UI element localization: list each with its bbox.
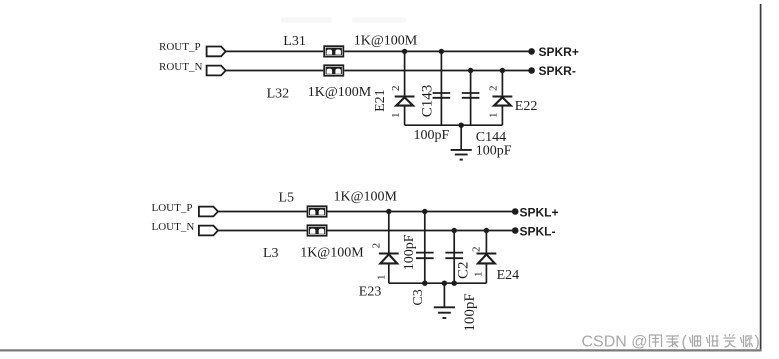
- svg-text:2: 2: [390, 86, 402, 92]
- ground top section: [451, 125, 472, 159]
- junction C3 top: [422, 209, 427, 214]
- node SPKL-: [512, 225, 556, 239]
- svg-text:1K@100M: 1K@100M: [300, 245, 364, 260]
- svg-text:C3: C3: [411, 289, 426, 305]
- svg-text:LOUT_N: LOUT_N: [152, 221, 195, 233]
- svg-text:L32: L32: [267, 86, 290, 101]
- svg-text:L3: L3: [263, 246, 279, 261]
- wire ROUT_P to L31: [226, 50, 323, 52]
- svg-text:SPKL+: SPKL+: [520, 205, 559, 219]
- capacitor C144: [462, 71, 480, 126]
- svg-text:1K@100M: 1K@100M: [354, 34, 418, 49]
- TVS diode E21: [395, 51, 415, 125]
- wire L3 to SPKL-: [328, 230, 516, 232]
- capacitor C3: [416, 212, 434, 284]
- svg-text:1: 1: [390, 113, 402, 119]
- node SPKL+: [512, 205, 559, 219]
- node SPKR-: [528, 64, 576, 78]
- wire LOUT_P to L5: [218, 211, 307, 213]
- capacitor C2: [445, 231, 463, 284]
- svg-text:SPKR+: SPKR+: [539, 45, 579, 59]
- junction ground rail bottom: [442, 281, 447, 286]
- port LOUT_P: [152, 202, 219, 217]
- svg-text:2: 2: [488, 86, 500, 92]
- junction ground rail top: [459, 123, 464, 128]
- svg-text:C2: C2: [455, 261, 471, 279]
- wire L32 to SPKR-: [344, 70, 531, 72]
- TVS diode E24: [477, 231, 497, 284]
- svg-text:100pF: 100pF: [402, 234, 417, 270]
- svg-text:2: 2: [371, 243, 383, 249]
- svg-text:CSDN @: CSDN @: [582, 333, 648, 350]
- svg-text:E22: E22: [515, 99, 538, 114]
- TVS diode E23: [379, 212, 399, 284]
- ferrite bead L3: [307, 225, 326, 236]
- junction E22 top: [500, 68, 505, 73]
- wire LOUT_N to L3: [218, 230, 307, 232]
- svg-text:E23: E23: [359, 284, 382, 299]
- junction E23 top: [386, 209, 391, 214]
- svg-text:ROUT_P: ROUT_P: [159, 41, 201, 53]
- svg-text:E21: E21: [373, 89, 388, 112]
- svg-text:1K@100M: 1K@100M: [308, 85, 372, 100]
- ferrite bead L5: [307, 206, 326, 217]
- svg-text:E24: E24: [497, 268, 520, 283]
- port ROUT_N: [159, 61, 226, 76]
- junction C3 bottom: [422, 281, 427, 286]
- junction C143 top: [439, 49, 444, 54]
- junction E21 top: [402, 49, 407, 54]
- junction C2 bottom: [452, 281, 457, 286]
- capacitor C143: [433, 51, 451, 125]
- wire ground rail bottom section: [389, 282, 487, 284]
- port LOUT_N: [152, 221, 219, 235]
- svg-text:100pF: 100pF: [414, 128, 450, 143]
- svg-text:1: 1: [488, 113, 500, 119]
- node SPKR+: [528, 45, 579, 59]
- ground bottom section: [434, 283, 455, 318]
- wire L5 to SPKL+: [328, 211, 516, 213]
- junction E24 top: [484, 228, 489, 233]
- svg-text:ROUT_N: ROUT_N: [159, 61, 202, 73]
- svg-text:100pF: 100pF: [462, 293, 478, 331]
- svg-text:LOUT_P: LOUT_P: [152, 202, 193, 214]
- svg-text:1: 1: [473, 272, 485, 278]
- wire ROUT_N to L32: [226, 70, 323, 72]
- ferrite bead L31: [324, 46, 343, 57]
- junction C144 top: [468, 68, 473, 73]
- svg-text:SPKR-: SPKR-: [539, 64, 576, 78]
- wire ground rail top section: [405, 124, 503, 126]
- svg-text:C143: C143: [420, 85, 436, 118]
- junction C2 top: [452, 228, 457, 233]
- svg-text:100pF: 100pF: [476, 144, 512, 159]
- ferrite bead L32: [324, 65, 343, 76]
- svg-text:SPKL-: SPKL-: [520, 225, 556, 239]
- svg-text:): ): [755, 333, 760, 350]
- svg-text:1K@100M: 1K@100M: [334, 189, 398, 204]
- svg-text:L31: L31: [283, 34, 306, 49]
- port ROUT_P: [159, 41, 226, 56]
- svg-text:2: 2: [471, 247, 483, 253]
- svg-text:(: (: [682, 333, 688, 350]
- svg-text:L5: L5: [279, 190, 295, 205]
- svg-text:1: 1: [375, 275, 387, 281]
- TVS diode E22: [493, 71, 513, 126]
- wire L31 to SPKR+: [344, 50, 531, 52]
